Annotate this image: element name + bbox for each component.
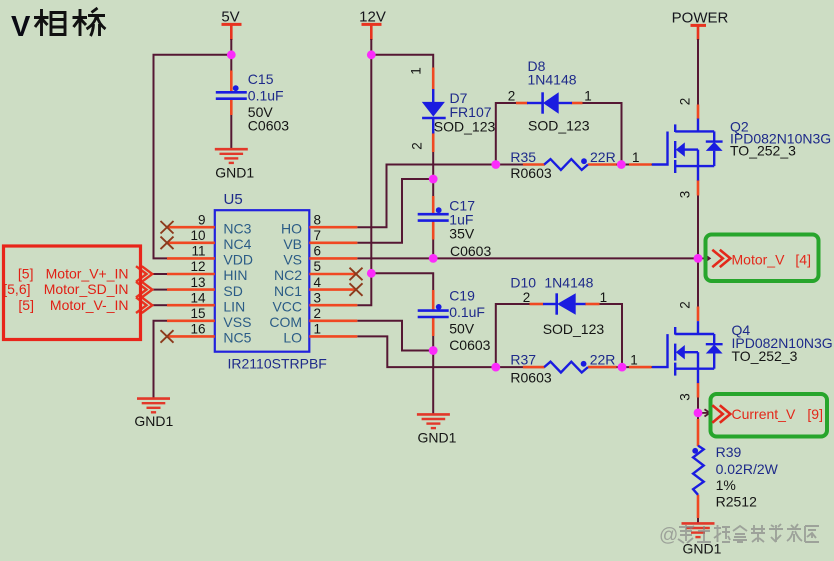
pin stub D7 pin1 — [432, 68, 435, 90]
label R37 values — [510, 352, 615, 386]
svg-text:NC3: NC3 — [223, 220, 251, 236]
svg-text:@: @ — [659, 525, 678, 546]
harness box Motor inputs — [4, 246, 141, 340]
label D8 values — [528, 58, 590, 134]
svg-text:[5]: [5] — [18, 297, 34, 313]
pin stub Q4 drain — [697, 307, 700, 322]
svg-text:R0603: R0603 — [510, 369, 551, 385]
svg-text:Motor_V: Motor_V — [732, 252, 786, 268]
svg-text:3: 3 — [678, 191, 693, 199]
capacitor C19 — [418, 304, 449, 317]
svg-text:0.1uF: 0.1uF — [449, 304, 485, 320]
title V相桥 — [11, 8, 106, 43]
transistor Q2 arrow and body diode fill — [676, 142, 723, 157]
wire 5V rail to C15 and left branch — [154, 39, 232, 258]
svg-text:2: 2 — [523, 290, 531, 305]
wire LO pin1 to R37 — [357, 336, 545, 367]
svg-text:R37: R37 — [510, 352, 536, 368]
port box Current_V — [711, 394, 828, 437]
pin 14 LIN — [167, 304, 215, 307]
wire D8 left leg — [496, 103, 528, 165]
svg-text:2: 2 — [508, 88, 516, 103]
transistor Q2 IPD082N10N3G — [652, 119, 723, 181]
no-connect X pin 16 — [161, 330, 174, 343]
power flag POWER — [672, 10, 729, 40]
transistor Q4 IPD082N10N3G — [652, 321, 723, 383]
node VB bootstrap junction — [429, 175, 438, 184]
svg-text:1: 1 — [600, 290, 608, 305]
capacitor C15 — [216, 85, 247, 98]
label D10 values — [510, 274, 604, 337]
diode D10 1N4148 — [543, 293, 586, 314]
svg-text:16: 16 — [190, 322, 205, 337]
wire VB node down to C17 top — [432, 179, 434, 214]
pin stub R39 bottom — [697, 495, 700, 518]
svg-text:COM: COM — [269, 314, 302, 330]
svg-text:1: 1 — [584, 88, 592, 103]
svg-text:C0603: C0603 — [248, 118, 289, 134]
pin 9 NC3 — [167, 226, 215, 229]
wire COM pin2 to C19 bottom node — [357, 321, 433, 351]
label C15 values — [248, 71, 289, 134]
svg-text:8: 8 — [314, 212, 322, 227]
wire Q4 source to R39 — [697, 383, 699, 446]
wire R37 right to Q4 gate — [588, 366, 652, 368]
svg-text:SD: SD — [223, 283, 242, 299]
pin stub D10 pin1 — [585, 303, 600, 306]
svg-text:HO: HO — [281, 220, 302, 236]
pin stub R37 right — [588, 366, 617, 369]
pin stub R35 right — [588, 163, 617, 166]
pin stub C15 top — [230, 71, 233, 92]
svg-text:Motor_V-_IN: Motor_V-_IN — [50, 297, 129, 313]
label harness Motor_SD_IN — [3, 281, 128, 297]
no-connect X pin 10 — [161, 237, 174, 250]
svg-text:LO: LO — [283, 330, 302, 346]
svg-text:GND1: GND1 — [134, 413, 173, 429]
label Q4 values — [732, 322, 833, 364]
svg-text:NC4: NC4 — [223, 236, 251, 252]
wire 12V junction to C19 top — [371, 273, 433, 310]
pin 12 HIN — [167, 273, 215, 276]
wire Current_V port entry arrow — [698, 409, 710, 416]
pin stub Q2 source — [697, 180, 700, 196]
svg-text:3: 3 — [678, 393, 693, 401]
node R35-D8-Q2gate junction — [617, 160, 626, 169]
svg-text:1: 1 — [632, 150, 640, 165]
wire R39 bottom to GND — [697, 495, 699, 524]
svg-text:22R: 22R — [590, 352, 616, 368]
pin stub Q4 gate — [629, 366, 652, 369]
svg-text:1: 1 — [630, 353, 638, 368]
label R35 values — [510, 149, 615, 181]
svg-text:D10: D10 — [510, 274, 536, 290]
wire C19 bottom — [432, 317, 434, 351]
svg-text:VSS: VSS — [223, 314, 251, 330]
node 12V-VCC-C19 junction — [367, 269, 376, 278]
pin 15 VSS — [167, 319, 215, 322]
svg-text:C19: C19 — [449, 288, 475, 304]
svg-text:0.02R/2W: 0.02R/2W — [716, 461, 779, 477]
label C17 values — [449, 197, 491, 259]
svg-text:0.1uF: 0.1uF — [248, 88, 284, 104]
svg-text:35V: 35V — [449, 225, 475, 241]
svg-text:15: 15 — [190, 306, 205, 321]
svg-text:Current_V: Current_V — [732, 406, 796, 422]
harness chevron HIN — [152, 273, 167, 275]
wire 12V rail down to VCC — [357, 39, 371, 305]
svg-text:R39: R39 — [716, 444, 742, 460]
svg-text:Motor_V+_IN: Motor_V+_IN — [46, 266, 129, 282]
pin stub R37 left — [523, 366, 545, 369]
no-connect X pin 9 — [161, 221, 174, 234]
label R39 values — [716, 444, 779, 509]
svg-text:1: 1 — [409, 67, 424, 75]
ground GND1 under C19 — [417, 414, 450, 428]
pin 5 NC2 — [309, 273, 357, 276]
svg-text:NC1: NC1 — [274, 283, 302, 299]
svg-text:C15: C15 — [248, 71, 274, 87]
red pin stub overlays — [231, 68, 698, 519]
port box Motor_V — [706, 235, 819, 282]
diode D8 1N4148 — [527, 92, 572, 113]
svg-text:TO_252_3: TO_252_3 — [732, 348, 798, 364]
ground GND1 left under VSS — [137, 399, 170, 413]
svg-text:HIN: HIN — [223, 267, 247, 283]
node R37-D10-Q4gate junction — [618, 363, 627, 372]
wire R35 right to Q2 gate — [588, 164, 652, 166]
svg-text:7: 7 — [314, 228, 322, 243]
node COM-C19-GND junction — [429, 346, 438, 355]
svg-text:NC2: NC2 — [274, 267, 302, 283]
pin 7 VB — [309, 242, 357, 245]
svg-text:[9]: [9] — [807, 406, 823, 422]
svg-text:13: 13 — [190, 275, 205, 290]
svg-text:SOD_123: SOD_123 — [434, 118, 496, 134]
ground GND1 bottom right — [682, 523, 715, 537]
diode D7 FR107 — [422, 89, 446, 134]
svg-text:IR2110STRPBF: IR2110STRPBF — [228, 356, 327, 372]
label C19 values — [449, 288, 490, 353]
wire VS pin6 to Motor_V node — [357, 257, 698, 259]
svg-text:VDD: VDD — [223, 252, 253, 268]
svg-text:GND1: GND1 — [215, 165, 254, 181]
svg-text:5: 5 — [314, 259, 322, 274]
pin numbers right 8-1 — [314, 212, 322, 336]
svg-text:9: 9 — [198, 212, 206, 227]
svg-text:SOD_123: SOD_123 — [528, 118, 590, 134]
svg-text:4: 4 — [314, 275, 322, 290]
node 5V junction — [227, 50, 236, 59]
power flag 5V — [221, 9, 241, 40]
svg-text:14: 14 — [190, 290, 206, 305]
svg-text:C0603: C0603 — [450, 243, 491, 259]
pin stub C15 bottom — [230, 100, 233, 115]
svg-text:2: 2 — [410, 142, 425, 150]
svg-text:SOD_123: SOD_123 — [543, 321, 605, 337]
wire D10 left leg — [496, 304, 543, 367]
svg-text:[4]: [4] — [795, 252, 811, 268]
label Q2 values — [730, 119, 831, 159]
pin 13 SD — [167, 288, 215, 291]
svg-text:[5]: [5] — [18, 266, 34, 282]
wire Q2 source to Q4 drain — [697, 180, 699, 321]
wire POWER rail to Q2 drain — [697, 39, 699, 119]
wire HO pin8 to R35 — [357, 165, 545, 228]
pin stub D8 pin2 — [516, 102, 528, 105]
label harness Motor_V+_IN — [18, 266, 129, 282]
wire 12V to D7 top — [371, 55, 433, 102]
svg-text:[5,6]: [5,6] — [3, 281, 30, 297]
pin stub Q2 drain — [697, 105, 700, 120]
svg-text:VB: VB — [283, 236, 302, 252]
capacitor C17 — [418, 207, 449, 220]
pin numbers left 9-16 — [190, 212, 206, 336]
svg-text:11: 11 — [191, 244, 205, 259]
pin 16 NC5 — [167, 335, 215, 338]
pin stub C17 top — [432, 196, 435, 213]
svg-text:GND1: GND1 — [418, 430, 457, 446]
node Current_V junction — [694, 409, 703, 418]
pin stub D7 pin2 — [432, 133, 435, 153]
svg-text:VS: VS — [283, 252, 302, 268]
pin 3 VCC — [309, 304, 357, 307]
pin stub C19 bottom — [432, 318, 435, 337]
resistor R39 — [692, 446, 703, 495]
wire C17 bottom to VS wire — [432, 221, 434, 258]
label port Motor_V — [732, 252, 812, 268]
pin stub R39 top — [697, 419, 700, 446]
svg-text:R35: R35 — [510, 149, 536, 165]
svg-text:V: V — [11, 11, 31, 43]
svg-text:1N4148: 1N4148 — [528, 71, 577, 87]
svg-text:50V: 50V — [449, 321, 475, 337]
no-connect X pin 5 NC2 — [350, 268, 363, 281]
node VS-C17 junction — [429, 254, 438, 263]
svg-text:Motor_SD_IN: Motor_SD_IN — [44, 281, 129, 297]
no-connect X pin 4 NC1 — [350, 283, 363, 296]
svg-text:12: 12 — [190, 259, 205, 274]
power flag 12V — [359, 9, 386, 40]
pin 4 NC1 — [309, 288, 357, 291]
pin 2 COM — [309, 319, 357, 322]
svg-text:1%: 1% — [716, 477, 736, 493]
svg-text:2: 2 — [314, 306, 322, 321]
svg-text:R0603: R0603 — [510, 165, 551, 181]
svg-text:R2512: R2512 — [716, 493, 757, 509]
svg-text:2: 2 — [678, 301, 693, 309]
pin stub Q4 source — [697, 383, 700, 398]
pin 10 NC4 — [167, 242, 215, 245]
resistor R37 — [544, 361, 588, 373]
wire D8 right leg — [559, 103, 622, 165]
pin 1 LO — [309, 335, 357, 338]
label harness Motor_V-_IN — [18, 297, 128, 313]
label D7 values — [434, 90, 496, 134]
node Motor_V junction — [694, 254, 703, 263]
node LO-R37-D10 junction — [491, 363, 500, 372]
svg-text:1: 1 — [314, 322, 322, 337]
wire D10 right leg — [576, 304, 622, 367]
node HO-R35-D8 junction — [491, 160, 500, 169]
op-amp U5 IR2110STRPBF body — [215, 210, 309, 352]
wire VB pin7 to bootstrap node — [357, 179, 433, 243]
pin stub C17 bottom — [432, 222, 435, 240]
pin stub D8 pin1 — [571, 102, 582, 105]
svg-text:LIN: LIN — [223, 298, 245, 314]
pin stub Q2 gate — [629, 163, 652, 166]
wire D7 bottom to VB node — [432, 118, 434, 179]
pin stub C19 top — [432, 290, 435, 310]
watermark — [659, 524, 819, 546]
pin stub R35 left — [523, 163, 545, 166]
harness chevron SD — [152, 289, 167, 291]
pin stub D10 pin2 — [530, 303, 544, 306]
svg-text:1N4148: 1N4148 — [544, 274, 593, 290]
svg-text:NC5: NC5 — [223, 330, 251, 346]
wire C19 node to GND — [432, 351, 434, 415]
svg-text:U5: U5 — [224, 191, 243, 208]
svg-text:VCC: VCC — [272, 298, 302, 314]
pin 8 HO — [309, 226, 357, 229]
svg-text:C0603: C0603 — [449, 337, 490, 353]
wire Motor_V port entry arrow — [698, 255, 710, 262]
node 12V junction — [367, 50, 376, 59]
resistor R35 — [544, 158, 588, 170]
svg-text:2: 2 — [678, 98, 693, 106]
pin 6 VS — [309, 257, 357, 260]
svg-text:TO_252_3: TO_252_3 — [730, 142, 796, 158]
svg-text:3: 3 — [314, 290, 322, 305]
ground GND1 under C15 — [215, 149, 248, 163]
harness chevron LIN — [152, 304, 167, 306]
svg-text:22R: 22R — [590, 149, 616, 165]
wire VSS pin15 to GND — [154, 321, 168, 399]
pin 11 VDD — [167, 257, 215, 260]
wire C15 bottom to GND — [230, 99, 232, 149]
label port Current_V — [732, 406, 824, 422]
svg-text:10: 10 — [190, 228, 205, 243]
svg-text:6: 6 — [314, 244, 322, 259]
transistor Q4 arrow and body diode fill — [676, 345, 723, 360]
